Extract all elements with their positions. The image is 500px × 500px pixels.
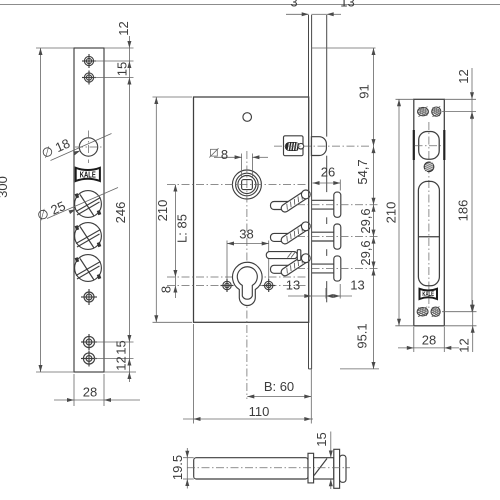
svg-text:210: 210 — [155, 200, 170, 222]
svg-text:KALE: KALE — [80, 170, 96, 179]
svg-text:26: 26 — [321, 165, 335, 180]
svg-text:13: 13 — [286, 278, 300, 293]
svg-text:15: 15 — [114, 340, 129, 354]
svg-text:186: 186 — [456, 200, 471, 222]
svg-text:8: 8 — [221, 147, 228, 162]
svg-text:300: 300 — [0, 176, 10, 198]
svg-text:246: 246 — [113, 202, 128, 224]
svg-text:L: 85: L: 85 — [175, 214, 190, 243]
svg-text:8: 8 — [159, 286, 174, 293]
svg-text:12: 12 — [116, 21, 131, 35]
svg-text:12: 12 — [456, 69, 471, 83]
svg-text:110: 110 — [249, 404, 270, 419]
svg-text:29,6: 29,6 — [358, 240, 373, 265]
svg-text:12: 12 — [114, 356, 129, 370]
svg-text:15: 15 — [314, 432, 329, 446]
svg-text:28: 28 — [83, 385, 97, 400]
svg-text:95.1: 95.1 — [355, 323, 370, 348]
svg-text:19.5: 19.5 — [170, 455, 185, 480]
svg-text:38: 38 — [239, 227, 253, 242]
svg-text:13: 13 — [350, 278, 364, 293]
svg-text:3: 3 — [290, 0, 297, 10]
svg-text:210: 210 — [384, 202, 399, 224]
svg-text:54,7: 54,7 — [355, 159, 370, 184]
svg-text:15: 15 — [115, 62, 130, 76]
svg-text:12: 12 — [457, 338, 472, 352]
svg-text:B: 60: B: 60 — [264, 379, 294, 394]
svg-text:28: 28 — [422, 333, 436, 348]
svg-text:91: 91 — [357, 84, 372, 98]
svg-text:13: 13 — [340, 0, 354, 10]
svg-text:29,6: 29,6 — [358, 208, 373, 233]
svg-text:KALE: KALE — [422, 291, 434, 298]
